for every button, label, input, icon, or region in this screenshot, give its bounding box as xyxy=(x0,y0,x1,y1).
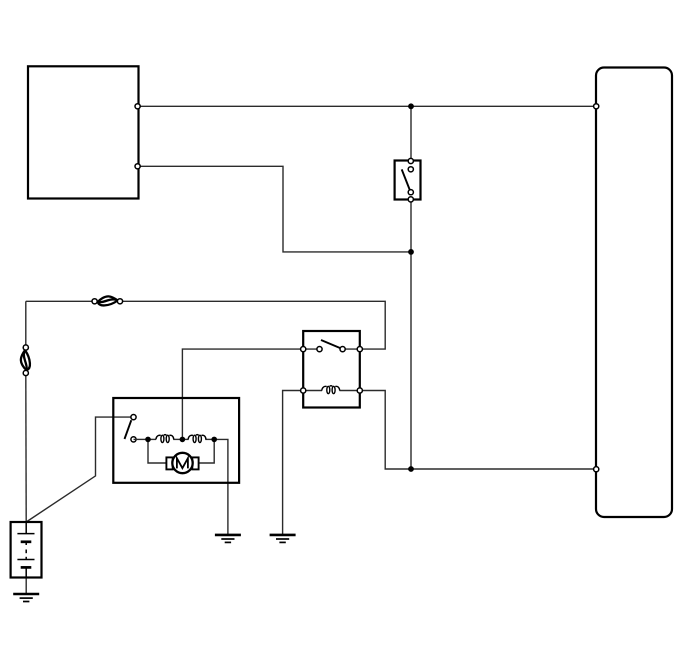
relay box xyxy=(303,331,360,408)
motor field coil L3 xyxy=(188,435,206,443)
battery plate long 1 xyxy=(17,533,34,535)
fusible link F2 (vertical) xyxy=(21,350,30,370)
battery stem top xyxy=(25,522,27,534)
relay coil lead left xyxy=(303,390,322,392)
wire: switch S1 down to lower junctions xyxy=(410,200,412,470)
relay switch left contact xyxy=(317,347,322,352)
wire: right brush feed xyxy=(199,439,215,463)
switch S1 bottom terminal xyxy=(408,197,413,202)
relay switch wire left xyxy=(303,348,319,350)
node: motor right xyxy=(211,437,217,443)
wire: relay switch output left and down to motor coil centre tap xyxy=(182,349,303,439)
switch S1 upper contact xyxy=(408,167,413,172)
motor unit switch blade xyxy=(125,420,132,439)
wire: relay coil left terminal to ground G2 xyxy=(283,391,304,535)
relay switch right contact xyxy=(340,347,345,352)
relay switch wire right xyxy=(343,348,360,350)
junction: mid bus xyxy=(408,249,414,255)
battery stub 2 xyxy=(25,557,27,560)
relay coil lead right xyxy=(340,390,360,392)
connector block (right rounded rectangle) xyxy=(596,68,672,518)
motor unit switch upper contact xyxy=(131,415,136,420)
battery B1 box xyxy=(11,522,42,578)
connector pin 2 xyxy=(594,467,599,472)
wire: relay coil right terminal down to bottom bus xyxy=(360,391,596,470)
wire: top bus junction down to switch S1 xyxy=(410,106,412,160)
switch S1 box xyxy=(395,161,421,200)
ground G2 (relay coil) xyxy=(270,535,296,543)
fusible link F1 right terminal xyxy=(117,299,122,304)
battery stub 1 xyxy=(25,542,27,545)
wire: battery positive diagonal to dimmer switch xyxy=(26,417,133,522)
motor unit switch lower contact xyxy=(131,437,136,442)
wire: coil row xyxy=(148,438,156,440)
fusible link F2 bottom terminal xyxy=(23,370,28,375)
wire: vertical fuse to battery positive xyxy=(25,373,27,522)
wire: motor right brush node to ground G1 xyxy=(214,439,228,535)
junction: top bus xyxy=(408,103,414,109)
motor M1 body xyxy=(172,453,192,473)
relay terminal top-right xyxy=(357,347,362,352)
motor right brush xyxy=(192,457,198,469)
switch S1 blade xyxy=(402,169,410,190)
ground G3 (battery) xyxy=(13,594,39,602)
wire: left corner to horizontal fuse xyxy=(26,300,95,302)
ECU pin 1 xyxy=(135,104,140,109)
relay terminal bottom-right xyxy=(357,388,362,393)
motor M1 label xyxy=(177,458,188,468)
motor left brush xyxy=(166,457,172,469)
node: motor switch output xyxy=(145,437,151,443)
motor unit box xyxy=(113,398,239,483)
battery stem bottom xyxy=(25,567,27,577)
fusible link F2 top terminal xyxy=(23,345,28,350)
fusible link F1 left terminal xyxy=(92,299,97,304)
battery plate long 2 xyxy=(17,559,34,561)
relay switch blade xyxy=(321,340,340,348)
junction: bottom bus xyxy=(408,466,414,472)
battery dash xyxy=(25,550,27,554)
switch S1 top terminal xyxy=(408,158,413,163)
fusible link F1 (horizontal) xyxy=(98,296,118,305)
ground G1 (motor) xyxy=(215,535,241,543)
relay coil L1 xyxy=(322,386,340,394)
wire: ECU pin1 to connector (top bus) xyxy=(139,105,597,107)
switch S1 lower contact xyxy=(408,190,413,195)
motor field coil L2 xyxy=(156,435,174,443)
node: motor coil centre tap xyxy=(180,437,186,443)
wire: battery negative to ground G3 xyxy=(25,578,27,595)
connector pin 1 xyxy=(594,104,599,109)
relay terminal top-left xyxy=(301,347,306,352)
battery plate short 2 xyxy=(21,566,32,569)
wire: ECU pin2 right, down, to mid junction xyxy=(139,166,412,252)
wire: fused feed - left corner down to vertical fuse xyxy=(25,301,27,347)
wire: fused feed horizontal run to relay switch input xyxy=(120,301,385,349)
component box (top-left ECU) xyxy=(28,66,139,198)
wire: left brush feed xyxy=(148,439,166,463)
ECU pin 2 xyxy=(135,164,140,169)
relay terminal bottom-left xyxy=(301,388,306,393)
battery plate short 1 xyxy=(21,540,32,543)
wire: switch lower contact to node xyxy=(134,438,149,440)
